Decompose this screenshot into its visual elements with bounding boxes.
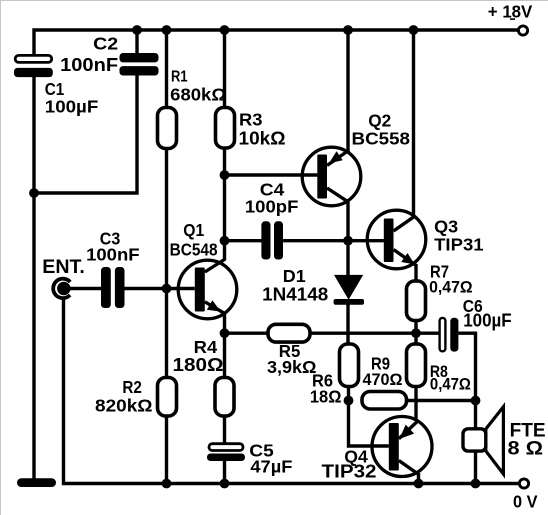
svg-text:Q2: Q2 [368,111,391,131]
svg-text:1N4148: 1N4148 [262,284,328,305]
svg-text:3,9kΩ: 3,9kΩ [267,357,317,377]
svg-text:0 V: 0 V [513,492,538,512]
svg-text:470Ω: 470Ω [363,370,403,389]
svg-text:TIP31: TIP31 [434,235,484,255]
svg-text:180Ω: 180Ω [173,355,224,375]
svg-text:0,47Ω: 0,47Ω [430,375,471,394]
svg-text:8 Ω: 8 Ω [508,438,544,460]
svg-text:R1: R1 [171,69,188,86]
svg-text:ENT.: ENT. [42,257,85,278]
svg-text:Q3: Q3 [434,216,458,236]
svg-text:R2: R2 [122,377,142,397]
svg-text:47µF: 47µF [250,457,292,477]
svg-text:R4: R4 [194,337,218,357]
svg-text:100µF: 100µF [45,97,99,117]
svg-text:0,47Ω: 0,47Ω [429,278,473,297]
svg-text:820kΩ: 820kΩ [95,396,153,416]
svg-text:Q1: Q1 [183,220,204,240]
svg-text:C2: C2 [93,34,118,54]
svg-text:BC548: BC548 [170,240,218,260]
svg-text:18Ω: 18Ω [310,386,342,406]
svg-text:TIP32: TIP32 [322,462,377,482]
svg-text:100nF: 100nF [60,54,118,75]
svg-text:100pF: 100pF [245,197,299,217]
svg-text:680kΩ: 680kΩ [170,85,226,105]
svg-text:100nF: 100nF [86,245,140,265]
svg-text:R3: R3 [239,109,263,129]
svg-text:100µF: 100µF [463,311,512,331]
svg-text:BC558: BC558 [352,129,411,149]
svg-text:10kΩ: 10kΩ [239,129,286,149]
